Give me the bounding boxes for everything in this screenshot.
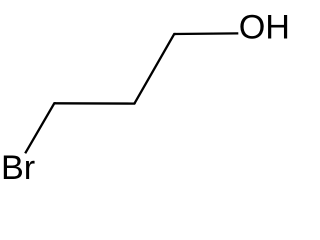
bond Br-C1 (25, 103, 56, 153)
molecule: 3-bromo-1-propanol skeletal structure (0, 0, 290, 200)
svg-text:OH: OH (239, 9, 290, 47)
bond C3-O (hydroxyl) (174, 32, 238, 35)
bond C1-C2 (54, 102, 135, 103)
svg-text:Br: Br (1, 149, 35, 187)
bond C2-C3 (134, 34, 175, 104)
